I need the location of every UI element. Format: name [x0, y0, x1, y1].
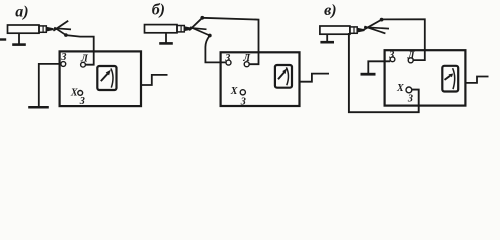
- box (test set) v: [385, 50, 466, 105]
- wire: clip lower to terminal Z: [205, 36, 226, 63]
- junction dot lower: [208, 34, 212, 38]
- wire: clip top to terminal L: [202, 18, 258, 64]
- probe stand: [18, 33, 20, 44]
- wire: clip to terminal L: [66, 35, 94, 65]
- terminal L: [81, 62, 86, 67]
- probe tip wedge: [357, 28, 364, 33]
- junction dot upper: [380, 18, 384, 22]
- jack X: [78, 91, 83, 96]
- wire: terminal Z to earth: [368, 61, 390, 73]
- jack X: [240, 90, 245, 95]
- ground bar: [28, 106, 49, 109]
- probe stand: [326, 34, 328, 42]
- probe tip wedge: [46, 27, 53, 32]
- margin dash: [0, 38, 6, 40]
- line stub right of box v: [465, 77, 488, 83]
- probe body: [320, 26, 350, 34]
- probe body: [145, 25, 178, 33]
- svg-text:Х: Х: [396, 83, 404, 94]
- jack X: [406, 87, 412, 93]
- probe neck: [177, 26, 184, 32]
- svg-text:Х: Х: [70, 87, 78, 98]
- svg-text:З: З: [407, 94, 413, 105]
- box (test set) b: [221, 52, 300, 106]
- ground wire from terminal Z: [39, 64, 61, 106]
- meter G2: [275, 65, 292, 88]
- wire: clip top to terminal L: [382, 19, 425, 60]
- svg-text:З: З: [240, 97, 246, 108]
- svg-text:в): в): [324, 2, 336, 19]
- clip fork prongs: [364, 20, 382, 30]
- svg-text:б): б): [152, 2, 165, 19]
- junction dot upper: [200, 16, 204, 20]
- svg-text:а): а): [15, 3, 28, 20]
- terminal Z: [61, 62, 66, 67]
- svg-text:Х: Х: [230, 86, 238, 97]
- line stub right of box b: [300, 74, 330, 82]
- terminal L: [408, 58, 413, 63]
- box (test set) a: [60, 51, 141, 106]
- terminal L: [244, 62, 249, 67]
- meter G3: [442, 66, 458, 92]
- probe body: [8, 25, 40, 33]
- probe stand: [165, 33, 167, 43]
- wire: jack X around to probe: [349, 33, 419, 112]
- junction dot: [64, 33, 68, 37]
- probe tip wedge: [184, 26, 191, 31]
- clip fork prongs: [53, 21, 68, 31]
- clip fork prongs: [189, 18, 202, 31]
- ground bar: [361, 73, 376, 76]
- terminal Z: [226, 60, 231, 65]
- terminal Z: [390, 57, 395, 62]
- probe neck: [350, 27, 357, 33]
- meter G1: [97, 66, 116, 90]
- probe neck: [39, 26, 46, 32]
- line stub right of box a: [141, 75, 168, 85]
- svg-text:З: З: [79, 96, 85, 107]
